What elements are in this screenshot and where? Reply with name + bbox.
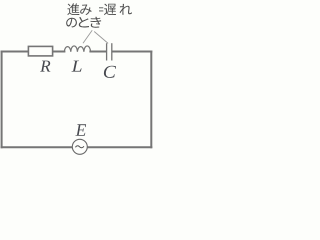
- AC source sine symbol: [76, 146, 84, 148]
- inductor L coil: [64, 46, 90, 52]
- text char れ: [120, 4, 132, 15]
- wire bottom: source to left corner: [2, 146, 73, 148]
- wire top: resistor to inductor: [53, 51, 65, 53]
- text char き: [90, 17, 101, 28]
- text char 進: [67, 3, 79, 15]
- source E value label: [75, 124, 86, 136]
- AC source E circle: [72, 139, 87, 154]
- wire top: inductor to capacitor: [90, 51, 106, 53]
- text char 遅: [104, 4, 116, 16]
- resistor R value label: [40, 61, 50, 72]
- capacitor C left plate: [106, 43, 108, 60]
- text char の: [66, 18, 77, 28]
- text char み: [80, 4, 91, 15]
- wire right vertical: [150, 52, 152, 148]
- inductor L value label: [71, 61, 81, 72]
- wire top: capacitor to right corner: [113, 51, 152, 53]
- resistor R box: [28, 46, 52, 56]
- annotation 進み=遅れ のとき: [66, 3, 132, 27]
- leader line to L: [83, 30, 92, 43]
- text char と: [79, 17, 89, 28]
- text char =: [99, 7, 103, 11]
- wire top: left corner to resistor: [2, 51, 29, 53]
- capacitor C right plate: [111, 43, 113, 60]
- capacitor C value label: [104, 66, 116, 78]
- leader line to C: [94, 32, 108, 44]
- wire bottom: right corner to source: [87, 146, 151, 148]
- wire left vertical: [1, 52, 3, 148]
